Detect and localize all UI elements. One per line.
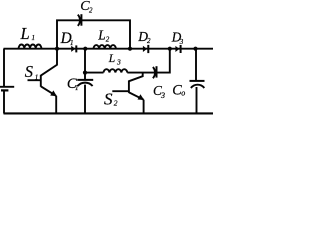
svg-text:1: 1 [32, 34, 36, 42]
svg-text:3: 3 [160, 91, 165, 100]
svg-text:L: L [20, 24, 30, 43]
svg-text:o: o [181, 89, 185, 98]
svg-text:L: L [97, 28, 105, 43]
svg-text:L: L [108, 53, 115, 65]
svg-text:1: 1 [75, 84, 79, 92]
svg-text:1: 1 [35, 73, 39, 81]
svg-text:S: S [25, 62, 33, 81]
svg-text:1: 1 [70, 39, 74, 47]
svg-text:3: 3 [116, 58, 121, 67]
svg-text:S: S [104, 90, 113, 109]
svg-text:3: 3 [179, 38, 184, 46]
svg-text:2: 2 [114, 99, 118, 108]
svg-text:2: 2 [89, 6, 93, 14]
svg-text:2: 2 [147, 37, 151, 45]
svg-text:2: 2 [106, 36, 110, 44]
